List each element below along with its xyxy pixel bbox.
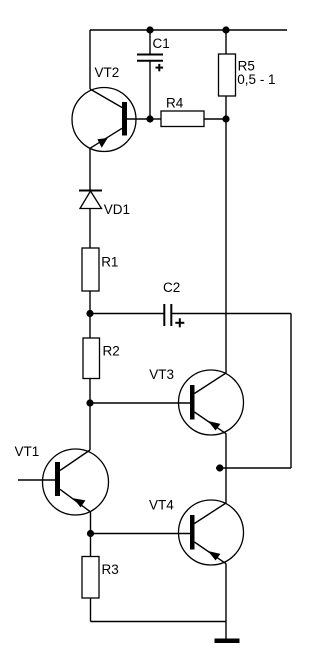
wire bottom rail (91, 621, 227, 623)
wire feedback bottom horizontal (216, 467, 291, 469)
capacitor C1 (137, 30, 163, 120)
svg-text:C2: C2 (163, 280, 180, 295)
node junction R1/R2/C2 (86, 310, 93, 317)
wire VT2 collector drop (89, 30, 91, 89)
transistor VT4 (179, 500, 244, 565)
wire VT4 base (91, 533, 191, 535)
svg-text:VT2: VT2 (95, 65, 120, 80)
svg-text:VD1: VD1 (104, 202, 130, 217)
resistor R5 (219, 54, 236, 96)
wire VT3 emitter to VT4 collector (225, 434, 227, 504)
wire VT4 emitter to ground (225, 564, 227, 639)
svg-text:VT1: VT1 (15, 444, 40, 459)
node junction R4 left / C1 (146, 115, 153, 122)
wire R4 to right node (204, 118, 226, 120)
node junction top rail / R5 (222, 26, 229, 33)
wire R1 bottom to node (89, 291, 91, 314)
wire VT2 emitter to diode (89, 149, 91, 191)
wire right backbone R4 node to VT3 collector (225, 119, 227, 373)
node junction R2 / VT3 base / VT1 collector (86, 399, 93, 406)
transistor VT1 (18, 449, 109, 515)
transistor VT3 (179, 370, 244, 435)
label C2 polarity + (175, 318, 184, 327)
ground (215, 639, 240, 644)
wire VT1 emitter to node (90, 512, 92, 534)
wire node to C2 (90, 313, 164, 315)
svg-text:VT4: VT4 (149, 498, 174, 513)
resistor R3 (82, 534, 99, 622)
svg-text:VT3: VT3 (149, 367, 174, 382)
resistor R2 (83, 314, 100, 404)
wire feedback right vertical (290, 314, 292, 469)
wire top rail (90, 29, 287, 31)
label C1 polarity + (156, 64, 164, 71)
wire R5 top lead (225, 30, 227, 54)
svg-text:R3: R3 (102, 562, 119, 577)
svg-text:C1: C1 (153, 36, 170, 51)
wire VT3 base (90, 402, 190, 404)
node junction top rail / C1 (146, 26, 153, 33)
transistor VT2 (72, 88, 136, 152)
resistor R4 (161, 111, 204, 127)
wire left backbone R2 node to VT1 (89, 403, 91, 450)
diode VD1 (79, 191, 102, 249)
wire VT2 base to node (127, 118, 150, 120)
node junction R4 right / R5 (222, 115, 229, 122)
wire C2 to right corner (171, 313, 291, 315)
resistor R1 (82, 248, 99, 291)
node junction VT3 emitter / feedback (216, 464, 223, 471)
capacitor C2 (164, 304, 171, 326)
svg-text:R4: R4 (166, 96, 184, 111)
svg-text:R2: R2 (103, 344, 120, 359)
wire R5 bottom lead (225, 96, 227, 119)
wire node to R4 (150, 118, 161, 120)
node junction VT1 emitter / VT4 base / R3 (87, 530, 94, 537)
svg-text:R1: R1 (101, 255, 118, 270)
svg-text:0,5 - 1: 0,5 - 1 (237, 72, 275, 87)
